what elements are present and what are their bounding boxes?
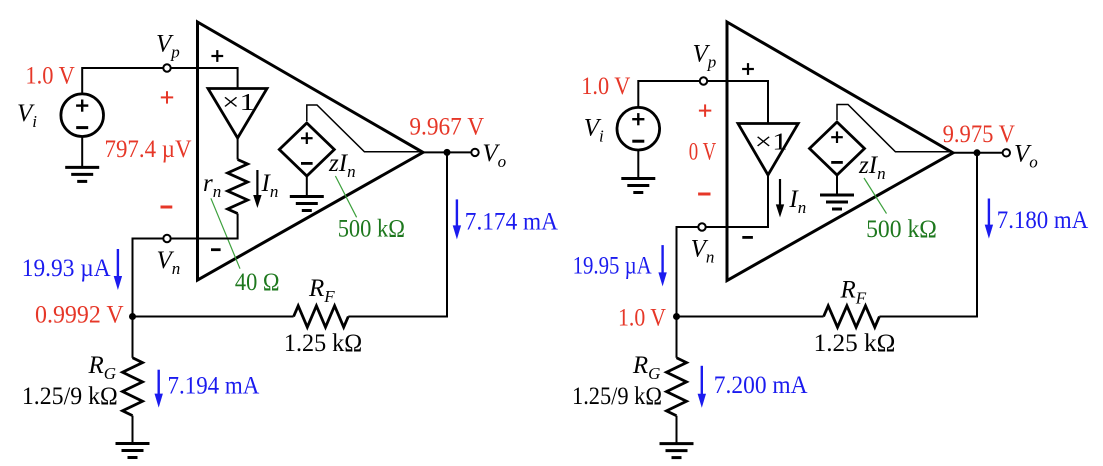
wire junction to R_F (left)	[133, 316, 294, 318]
node feedback junction dot (left)	[129, 313, 136, 320]
ground under R_G (right)	[660, 444, 694, 458]
label V_p (left)	[156, 31, 180, 62]
label 500 kΩ value (left)	[338, 216, 405, 243]
label V_i (left)	[17, 100, 37, 131]
current arrow 7.200 mA (right)	[698, 366, 706, 408]
plus inside diamond (right)	[831, 131, 843, 143]
wire V_i top to V_p to buffer input (left)	[82, 68, 237, 94]
svg-text:797.4 µV: 797.4 µV	[105, 136, 192, 163]
label 1.0 V source value (right)	[581, 73, 630, 100]
node V_p terminal (right)	[700, 77, 707, 84]
label zI_n (left)	[328, 150, 356, 181]
label R_G (left)	[88, 352, 117, 383]
label 19.95 µA (right)	[573, 253, 652, 280]
wire op-amp output (right)	[951, 152, 1002, 154]
label V_p (right)	[693, 41, 717, 72]
resistor R_G (left)	[123, 358, 143, 416]
wire R_G to ground (left)	[132, 416, 134, 444]
svg-text:1.25/9 kΩ: 1.25/9 kΩ	[22, 383, 118, 410]
svg-text:1.25/9 kΩ: 1.25/9 kΩ	[572, 383, 662, 410]
buffer ×1 amplifier (right)	[738, 124, 798, 176]
wire V_n down to junction and R_G (right)	[676, 227, 678, 358]
label - inverting input (left)	[211, 248, 221, 251]
ground under V_i (left)	[65, 167, 99, 181]
label V_n (right)	[691, 236, 715, 267]
label 19.93 µA (left)	[22, 255, 111, 282]
minus inside diamond (right)	[831, 161, 843, 164]
svg-text:1.0 V: 1.0 V	[581, 73, 630, 100]
wire V_i bottom (left)	[81, 137, 83, 168]
svg-text:7.180 mA: 7.180 mA	[997, 207, 1088, 234]
ground under R_G (left)	[116, 444, 150, 458]
label + noninverting input (right)	[742, 63, 754, 75]
voltage source V_i (left)	[61, 94, 104, 137]
label R_F (left)	[308, 275, 335, 306]
current arrow 19.93 µA (left)	[114, 249, 122, 290]
label 0 V error voltage (right)	[689, 139, 716, 166]
dependent source zI_n diamond (right)	[810, 122, 865, 175]
svg-text:7.200 mA: 7.200 mA	[714, 372, 808, 399]
red + of input voltage (right)	[699, 104, 711, 116]
voltage source V_i (right)	[617, 107, 660, 150]
label 7.200 mA (right)	[714, 372, 808, 399]
label 9.975 V output voltage (right)	[943, 121, 1015, 148]
label V_i (right)	[584, 115, 604, 146]
node output junction dot (left)	[444, 149, 451, 156]
wire diamond to ground (left)	[306, 176, 308, 197]
label ×1 (right)	[755, 130, 788, 156]
resistor r_n (left)	[228, 160, 248, 214]
wire V_i top to V_p to buffer input (right)	[638, 81, 768, 124]
svg-text:1.0 V: 1.0 V	[618, 305, 666, 332]
label V_o (right)	[1014, 141, 1038, 172]
red - of input voltage (left)	[161, 206, 173, 209]
svg-text:×1: ×1	[222, 90, 255, 116]
plus inside diamond (left)	[301, 132, 313, 144]
svg-text:0 V: 0 V	[689, 139, 716, 166]
svg-text:×1: ×1	[755, 130, 788, 156]
label V_o (left)	[482, 140, 506, 171]
label - inverting input (right)	[742, 236, 753, 239]
label R_F (right)	[840, 277, 867, 308]
label 1.25/9 kΩ value of R_G (left)	[22, 383, 118, 410]
label zI_n (right)	[858, 152, 886, 183]
label 7.180 mA (right)	[997, 207, 1088, 234]
svg-text:7.194 mA: 7.194 mA	[168, 373, 260, 400]
current arrow 7.180 mA (right)	[985, 199, 993, 239]
op-amp U1 body triangle (left)	[198, 22, 424, 280]
wire r_n to V_n wire (left)	[237, 214, 239, 240]
wire pennant diamond output to op-amp apex (right)	[837, 105, 951, 152]
minus inside diamond (left)	[301, 162, 313, 165]
pointer line zI_n to 500 kΩ (right)	[864, 178, 887, 214]
wire R_F to output node (right)	[879, 153, 977, 317]
label 1.0 V node voltage (right)	[618, 305, 666, 332]
label 40 Ω value of r_n (left)	[235, 269, 280, 296]
wire V_n horizontal (right)	[676, 226, 769, 228]
ground under V_i (right)	[621, 179, 655, 193]
red - of input voltage (right)	[698, 193, 710, 196]
wire junction to R_F (right)	[677, 316, 824, 318]
node V_o terminal (right)	[1003, 149, 1010, 156]
current arrow I_n (left)	[253, 170, 261, 208]
node V_o terminal (left)	[471, 149, 478, 156]
label 797.4 uV error voltage (left)	[105, 136, 192, 163]
svg-text:1.25 kΩ: 1.25 kΩ	[284, 330, 362, 357]
label 7.194 mA (left)	[168, 373, 260, 400]
dependent source zI_n diamond (left)	[279, 123, 334, 176]
label 1.0 V source value (left)	[25, 63, 74, 90]
resistor R_F (right)	[824, 306, 880, 327]
wire R_F to output node (left)	[348, 152, 447, 316]
pointer line r_n to 40 Ω (left)	[211, 198, 240, 268]
wire buffer output to r_n (left)	[237, 138, 239, 160]
svg-text:7.174 mA: 7.174 mA	[465, 209, 558, 236]
ground under diamond (right)	[820, 195, 854, 209]
current arrow 19.95 µA (right)	[658, 245, 666, 286]
resistor R_F (left)	[294, 306, 349, 327]
wire V_i bottom (right)	[637, 150, 639, 179]
label 9.967 V output voltage (left)	[409, 114, 484, 141]
svg-text:0.9992 V: 0.9992 V	[35, 302, 124, 329]
pointer line zI_n to 500 kΩ (left)	[335, 176, 356, 217]
current arrow 7.174 mA (left)	[453, 199, 461, 239]
ground under diamond (left)	[290, 197, 324, 211]
svg-text:9.975 V: 9.975 V	[943, 121, 1015, 148]
node V_n terminal (left)	[163, 235, 170, 242]
svg-text:19.95 µA: 19.95 µA	[573, 253, 652, 280]
label I_n (left)	[261, 170, 279, 201]
svg-text:9.967 V: 9.967 V	[409, 114, 484, 141]
svg-text:500 kΩ: 500 kΩ	[866, 216, 937, 243]
node V_n terminal (right)	[698, 223, 705, 230]
node feedback junction dot (right)	[673, 313, 680, 320]
wire diamond to ground (right)	[836, 175, 838, 195]
label + noninverting input (left)	[211, 50, 223, 62]
label ×1 (left)	[222, 90, 255, 116]
current arrow I_n (right)	[776, 179, 784, 217]
label 1.25 kΩ value of R_F (right)	[814, 330, 896, 357]
label 7.174 mA (left)	[465, 209, 558, 236]
wire op-amp output (left)	[421, 151, 471, 153]
red + of input voltage (left)	[161, 91, 173, 103]
label I_n (right)	[788, 186, 806, 217]
label V_n (left)	[157, 247, 181, 278]
svg-text:500 kΩ: 500 kΩ	[338, 216, 405, 243]
label 1.25 kΩ value of R_F (left)	[284, 330, 362, 357]
svg-text:40 Ω: 40 Ω	[235, 269, 280, 296]
wire V_n down to junction and R_G (left)	[132, 239, 134, 358]
label 1.25/9 kΩ value of R_G (right)	[572, 383, 662, 410]
svg-text:19.93 µA: 19.93 µA	[22, 255, 111, 282]
label r_n (left)	[203, 170, 221, 201]
current arrow 7.194 mA (left)	[155, 370, 163, 408]
resistor R_G (right)	[667, 358, 687, 416]
svg-text:1.0 V: 1.0 V	[25, 63, 74, 90]
node output junction dot (right)	[974, 149, 981, 156]
wire buffer output down to V_n wire (right)	[767, 175, 769, 228]
wire pennant diamond output to op-amp apex (left)	[307, 105, 421, 152]
label R_G (right)	[632, 352, 661, 383]
label 0.9992 V node voltage (left)	[35, 302, 124, 329]
op-amp U1 body triangle (right)	[727, 22, 953, 281]
label 500 kΩ value (right)	[866, 216, 937, 243]
svg-text:1.25 kΩ: 1.25 kΩ	[814, 330, 896, 357]
buffer ×1 amplifier (left)	[208, 89, 267, 139]
wire V_n horizontal (left)	[132, 238, 238, 240]
wire R_G to ground (right)	[676, 416, 678, 444]
node V_p terminal (left)	[163, 64, 170, 71]
